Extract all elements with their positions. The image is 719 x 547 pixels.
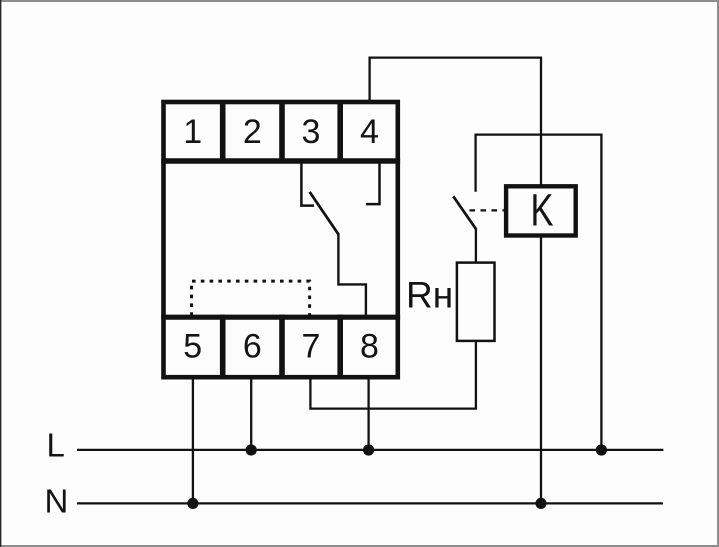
- terminal divider 1|2: [220, 100, 226, 164]
- svg-text:8: 8: [360, 328, 379, 366]
- svg-text:1: 1: [183, 113, 202, 151]
- junction K-N: [535, 498, 546, 509]
- wire pin8 to L: [367, 375, 369, 450]
- terminal divider 2|3: [279, 100, 285, 164]
- junction pin8-L: [363, 444, 374, 455]
- terminal divider 3|4: [337, 100, 343, 164]
- svg-text:5: 5: [183, 328, 202, 366]
- wire node A horizontal: [476, 135, 602, 450]
- relay coil K: [506, 186, 576, 235]
- wire pin6 to L: [250, 375, 252, 450]
- svg-text:6: 6: [243, 328, 262, 366]
- wire terminal4 top to K: [370, 58, 541, 504]
- junction pin6-L: [246, 444, 257, 455]
- N line: [77, 502, 663, 504]
- switch S1 blade: [453, 196, 476, 229]
- contact stationary left (terminal 3): [301, 161, 314, 206]
- L line: [77, 449, 663, 451]
- resistor Rn: [457, 263, 495, 341]
- wire resistor bottom to terminal 7: [310, 341, 476, 409]
- svg-text:2: 2: [243, 113, 262, 151]
- terminal divider 6|7: [279, 315, 285, 380]
- device outline: [164, 102, 398, 377]
- svg-text:K: K: [531, 184, 554, 235]
- svg-text:N: N: [45, 482, 69, 519]
- terminal divider 5|6: [220, 315, 226, 380]
- wire switch to resistor: [475, 229, 477, 263]
- terminal row separator top: [161, 158, 400, 164]
- svg-text:4: 4: [360, 113, 379, 151]
- junction right-L: [596, 444, 607, 455]
- dashed linkage to K: [470, 209, 506, 211]
- svg-text:7: 7: [302, 328, 321, 366]
- contact stationary right (terminal 4): [366, 161, 380, 204]
- svg-text:Rн: Rн: [406, 275, 453, 316]
- contact blade: [310, 192, 339, 234]
- svg-text:L: L: [47, 427, 65, 464]
- coil dotted box: [192, 281, 310, 316]
- terminal row separator bottom: [161, 315, 400, 320]
- wire pin5 to N: [192, 375, 194, 503]
- terminal divider 7|8: [337, 315, 343, 380]
- wire blade to terminal 8: [338, 233, 366, 317]
- junction pin5-N: [187, 498, 198, 509]
- svg-text:3: 3: [302, 113, 321, 151]
